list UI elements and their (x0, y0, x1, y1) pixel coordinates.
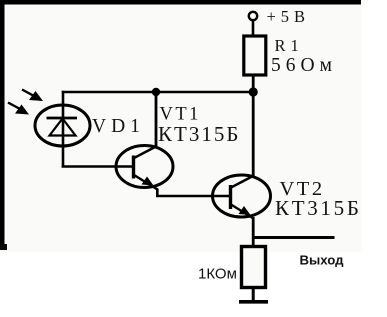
node junction right (249, 87, 258, 96)
resistor R1 (244, 36, 266, 75)
ground (239, 300, 268, 304)
light arrow 1 (22, 90, 43, 102)
transistor VT2 (213, 175, 271, 219)
wire top rail (62, 91, 255, 94)
wire photodiode bottom to VT1 base (62, 165, 134, 168)
svg-text:VD1: VD1 (92, 116, 145, 137)
terminal +5V (249, 12, 257, 20)
scan background (0, 0, 362, 252)
wire output (252, 236, 335, 239)
resistor R2 1kOm (242, 247, 266, 288)
photodiode VD1 (35, 105, 90, 146)
svg-text:Выход: Выход (300, 253, 345, 268)
svg-text:56Ом: 56Ом (271, 55, 337, 76)
svg-text:КТ315Б: КТ315Б (275, 196, 362, 220)
wire terminal to R1 (252, 21, 255, 37)
wire VT2 emitter down (252, 217, 255, 247)
light arrow 2 (8, 103, 29, 115)
transistor VT1 (116, 146, 173, 190)
wire VT1 collector (155, 92, 158, 148)
svg-text:КТ315Б: КТ315Б (158, 122, 240, 146)
node junction left (152, 88, 160, 96)
svg-text:R1: R1 (275, 36, 304, 55)
wire R1 to VT2 collector (252, 75, 255, 177)
svg-text:1КОм: 1КОм (198, 266, 237, 283)
wire photodiode vertical (62, 91, 65, 168)
wire VT1 emitter to VT2 base (157, 189, 231, 197)
svg-text:+5В: +5В (267, 7, 311, 26)
wire R2 to ground (252, 288, 255, 302)
